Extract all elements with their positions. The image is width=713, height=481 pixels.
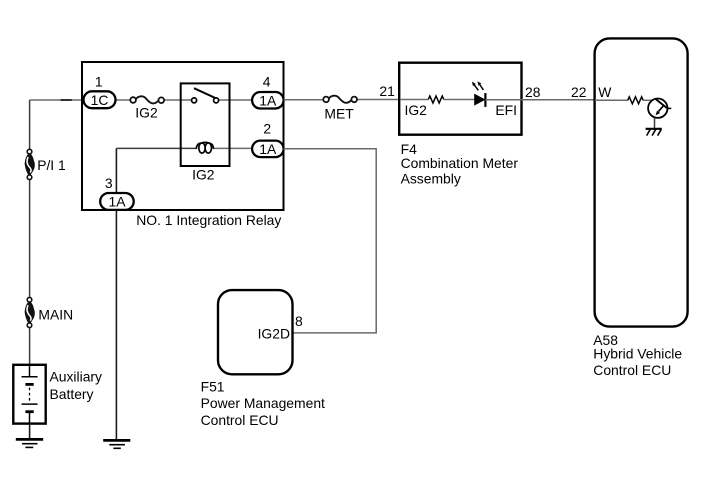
wire: coil lead right to pin 2 <box>213 147 252 149</box>
ground: relay pin 3 earth <box>103 440 130 448</box>
svg-text:1: 1 <box>95 74 103 90</box>
F4 Combination Meter Assembly box <box>399 63 521 187</box>
wire: LED to F4 right edge and out to A58 <box>485 99 594 101</box>
svg-text:8: 8 <box>295 313 303 329</box>
pin 3 (1A) <box>100 175 134 210</box>
svg-text:2: 2 <box>263 120 271 136</box>
wire: battery to ground <box>29 424 31 440</box>
wire: coil lead left <box>116 147 196 149</box>
wire: switch to pin 4 <box>218 99 252 101</box>
wire: A58 internal to resistor <box>595 99 628 101</box>
fuse MET <box>323 96 357 122</box>
wire: P/I 1 to MAIN <box>29 180 31 298</box>
relay switch contacts <box>192 88 219 103</box>
svg-text:Hybrid Vehicle: Hybrid Vehicle <box>593 346 682 362</box>
svg-text:Control ECU: Control ECU <box>201 412 279 428</box>
svg-text:1C: 1C <box>91 92 109 108</box>
pin 4 (1A) <box>252 74 284 109</box>
pin 1 (1C) <box>84 74 116 109</box>
svg-text:28: 28 <box>525 84 541 100</box>
svg-text:21: 21 <box>379 83 395 99</box>
svg-text:Auxiliary: Auxiliary <box>50 369 103 385</box>
wire: pin 4 to fuse MET <box>284 99 324 101</box>
svg-text:IG2: IG2 <box>135 105 158 121</box>
battery: Auxiliary Battery <box>13 365 102 424</box>
wire: coil branch down to pin 3 <box>115 148 117 192</box>
svg-text:IG2: IG2 <box>192 167 215 183</box>
svg-text:Battery: Battery <box>50 386 94 402</box>
fuse IG2 <box>130 96 164 120</box>
resistor (ECU input) <box>628 97 643 104</box>
wire: F4 internal left <box>400 99 428 101</box>
svg-text:NO. 1 Integration Relay: NO. 1 Integration Relay <box>136 212 281 228</box>
A58 Hybrid Vehicle Control ECU box <box>593 38 687 378</box>
relay inner box <box>181 83 230 166</box>
ground: below battery <box>16 439 43 447</box>
svg-text:Control ECU: Control ECU <box>593 362 671 378</box>
svg-text:EFI: EFI <box>495 102 517 118</box>
svg-text:Combination Meter: Combination Meter <box>401 155 519 171</box>
wire: left vertical battery branch <box>29 100 31 149</box>
svg-text:MAIN: MAIN <box>38 307 73 323</box>
svg-text:MET: MET <box>324 106 354 122</box>
svg-text:Assembly: Assembly <box>401 170 461 186</box>
svg-text:4: 4 <box>263 74 271 90</box>
wire: pin 2 to F51 vertical run <box>284 149 377 333</box>
svg-text:IG2D: IG2D <box>258 325 290 341</box>
svg-text:1A: 1A <box>259 92 277 108</box>
svg-text:1A: 1A <box>259 141 277 157</box>
pin 2 (1A) <box>252 120 284 157</box>
chassis ground (ECU) <box>646 129 662 136</box>
wire: resistor to transistor <box>643 99 652 101</box>
wire: resistor to LED <box>444 99 475 101</box>
fusible link MAIN <box>25 297 73 327</box>
transistor Q (in A58) <box>648 99 671 118</box>
fusible link P/I 1 <box>25 149 66 179</box>
wire: fuse MET to F4 <box>357 99 400 101</box>
svg-text:W: W <box>598 84 612 100</box>
relay coil IG2 <box>192 142 215 182</box>
resistor (meter IG2) <box>428 96 444 103</box>
svg-text:F51: F51 <box>201 379 225 395</box>
svg-text:Power Management: Power Management <box>201 395 325 411</box>
wire: transistor emitter to chassis ground <box>654 118 656 129</box>
LED EFI (diode with arrows) <box>472 81 517 118</box>
wire: battery feed horizontal top-left <box>30 99 84 101</box>
svg-text:3: 3 <box>105 175 113 191</box>
F51 Power Management Control ECU box <box>201 290 325 428</box>
svg-text:22: 22 <box>571 84 587 100</box>
svg-text:P/I 1: P/I 1 <box>37 157 66 173</box>
relay box NO. 1 Integration Relay <box>82 62 284 228</box>
wire: pin 1C to fuse IG2 <box>116 99 131 101</box>
svg-text:IG2: IG2 <box>405 102 428 118</box>
wire: dark dash on feed wire <box>61 99 72 101</box>
wire: pin 3 to ground <box>115 210 117 441</box>
wire: fuse IG2 to relay inner box <box>164 99 192 101</box>
svg-text:1A: 1A <box>109 194 127 210</box>
pin 8 (IG2D) <box>258 313 303 341</box>
wire: MAIN to battery <box>29 327 31 364</box>
